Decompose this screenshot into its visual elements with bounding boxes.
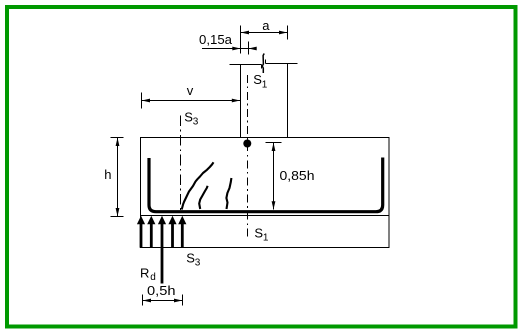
crack 2 (short, middle)	[199, 186, 207, 209]
svg-text:1: 1	[263, 233, 269, 244]
svg-text:0,5h: 0,5h	[147, 283, 176, 298]
svg-text:0,85h: 0,85h	[280, 168, 315, 183]
label S1 (bottom)	[254, 226, 269, 244]
base slab below footing	[141, 216, 390, 248]
crack 1 (long, at section S3)	[182, 162, 214, 209]
svg-text:R: R	[140, 266, 149, 281]
column (stub above footing)	[241, 64, 288, 138]
label S1 (top)	[253, 72, 267, 90]
soil reaction arrows (4 short)	[137, 216, 187, 248]
dimension h (footing height)	[111, 138, 124, 217]
svg-text:d: d	[150, 272, 156, 283]
centerline S1 (dash-dot)	[247, 75, 249, 239]
centerline S3 (dash-dot)	[180, 116, 182, 211]
svg-text:0,15a: 0,15a	[199, 32, 233, 47]
dimension a (column width)	[241, 26, 288, 54]
node: load application point (dot on S1)	[243, 140, 251, 148]
resultant Rd arrow (long, centre)	[158, 216, 166, 284]
dimension 0,85h (dot level to rebar)	[266, 143, 282, 210]
footing outline	[141, 138, 390, 216]
svg-text:h: h	[104, 167, 111, 182]
dimension 0,5h (Rd position)	[143, 295, 183, 306]
label S3 (bottom)	[186, 251, 201, 269]
column cut line with break symbol	[230, 60, 298, 69]
dimension 0,15a (column face to S1)	[202, 42, 254, 55]
svg-text:v: v	[187, 83, 194, 98]
svg-text:a: a	[262, 18, 270, 33]
svg-text:3: 3	[195, 258, 201, 269]
label S3 (top)	[184, 109, 199, 127]
dimension v (footing edge to column face)	[142, 93, 241, 109]
svg-text:1: 1	[262, 79, 268, 90]
rebar: bottom reinforcement with end hooks	[149, 158, 383, 212]
crack 3 (right)	[226, 178, 231, 209]
label Rd	[140, 266, 156, 283]
svg-text:3: 3	[193, 117, 199, 128]
